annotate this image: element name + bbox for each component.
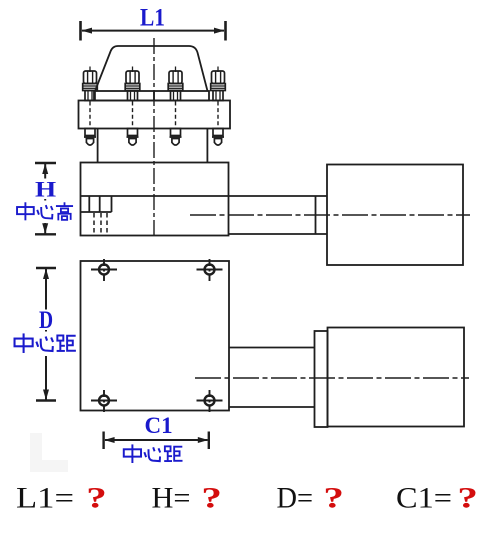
svg-text:?: ? <box>457 481 478 514</box>
label zhongxinju D 中心距 <box>15 333 76 353</box>
dimension L1 <box>81 21 226 41</box>
cover base strip <box>94 91 209 101</box>
svg-text:L1: L1 <box>140 2 165 31</box>
dimension H <box>35 163 56 234</box>
svg-text:L1=: L1= <box>16 483 74 515</box>
bolt B1 <box>83 67 98 146</box>
hidden bolt holes <box>94 213 107 236</box>
body split line / shaft top <box>81 195 328 197</box>
svg-text:D=: D= <box>277 483 314 515</box>
svg-text:?: ? <box>86 481 107 514</box>
hole H2 <box>197 259 223 281</box>
horizontal center axis front <box>190 214 470 216</box>
bolt B2 <box>125 67 140 146</box>
shaft bottom view <box>229 347 315 349</box>
faint watermark <box>30 433 68 472</box>
dimension D <box>36 268 56 401</box>
horizontal center axis bottom <box>195 377 469 379</box>
motor body front <box>327 165 463 266</box>
shaft flange bottom view <box>315 331 328 427</box>
shaft flange line front <box>315 196 317 234</box>
answer row <box>16 483 452 515</box>
label zhongxinju C1 中心距 <box>124 444 183 463</box>
white halo for labels <box>12 179 79 357</box>
motor body bottom view <box>328 328 465 427</box>
vertical center axis <box>153 38 155 236</box>
bolt B3 <box>168 67 183 146</box>
svg-text:D: D <box>39 306 53 334</box>
bolt B4 <box>211 67 226 146</box>
flange plate bottom view <box>81 261 230 411</box>
label zhongxingao 中心高 <box>17 202 73 220</box>
hole H4 <box>197 390 223 412</box>
shaft front bottom <box>229 233 328 235</box>
svg-text:C1=: C1= <box>396 483 452 515</box>
strip seam <box>153 91 155 101</box>
gearbox body front <box>81 163 229 236</box>
hole H3 <box>91 390 117 412</box>
terminal cover <box>95 46 208 91</box>
terminal plate <box>79 101 231 129</box>
svg-text:H=: H= <box>152 483 191 515</box>
svg-text:C1: C1 <box>145 413 173 438</box>
dimension C1 <box>104 432 209 450</box>
svg-text:?: ? <box>323 481 344 514</box>
terminal box neck <box>97 129 99 163</box>
hole H1 <box>91 259 117 281</box>
svg-text:?: ? <box>201 481 222 514</box>
svg-text:H: H <box>35 178 56 202</box>
foot detail <box>88 196 90 212</box>
